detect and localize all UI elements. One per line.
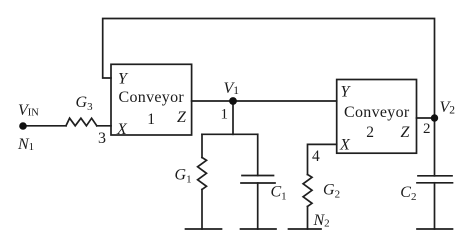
wire X pin 4 of conveyor 2 to resistor G2 xyxy=(308,144,337,174)
svg-text:X: X xyxy=(116,121,128,138)
resistor G1 xyxy=(198,158,207,190)
svg-text:Z: Z xyxy=(401,124,411,141)
node V1 junction dot xyxy=(229,97,237,105)
wire G2 to ground N2 xyxy=(307,207,309,230)
ground N2 under G2 xyxy=(289,228,322,230)
wire Z1 output through node V1 to Y of conveyor 2 xyxy=(192,100,337,102)
wire bar down to resistor G1 xyxy=(201,134,203,157)
ground under C2 xyxy=(417,228,453,230)
svg-text:4: 4 xyxy=(312,148,320,165)
ground under G1 xyxy=(186,228,222,230)
node V2 junction dot xyxy=(431,114,438,121)
svg-text:1: 1 xyxy=(147,111,155,128)
svg-text:Conveyor: Conveyor xyxy=(119,89,185,106)
capacitor C2 xyxy=(417,176,453,183)
wire node V1 down to G1 C1 bar xyxy=(232,101,234,134)
wire node V2 down to capacitor C2 xyxy=(434,118,436,176)
op-amp U1 conveyor 1 box xyxy=(111,64,192,135)
svg-text:2: 2 xyxy=(366,124,374,141)
conveyor 2 labels xyxy=(339,83,411,153)
capacitor C1 xyxy=(241,176,275,184)
svg-text:Z: Z xyxy=(177,109,187,126)
wire G3 to X pin 3 of conveyor 1 xyxy=(97,125,111,127)
node N1 input terminal dot xyxy=(19,122,27,130)
wire C2 to ground xyxy=(434,183,436,229)
resistor G2 xyxy=(303,175,312,207)
wire feedback loop V2 to Y of conveyor 1 xyxy=(103,19,435,119)
wire G1 to ground xyxy=(201,190,203,230)
resistor G3 xyxy=(66,118,97,126)
svg-text:Conveyor: Conveyor xyxy=(344,104,410,121)
wire horizontal bar joining G1 and C1 branches xyxy=(202,133,258,135)
wire Z2 output to node V2 xyxy=(417,117,435,119)
svg-text:3: 3 xyxy=(98,130,106,147)
svg-text:1: 1 xyxy=(221,106,229,122)
wire input from node N1 to G3 xyxy=(23,125,66,127)
op-amp U2 conveyor 2 box xyxy=(337,80,417,154)
svg-text:2: 2 xyxy=(423,121,431,137)
ground under C1 xyxy=(241,228,277,230)
wire C1 to ground xyxy=(257,183,259,229)
svg-text:X: X xyxy=(339,136,351,153)
wire bar down to capacitor C1 xyxy=(257,134,259,175)
conveyor 1 labels xyxy=(116,70,187,138)
